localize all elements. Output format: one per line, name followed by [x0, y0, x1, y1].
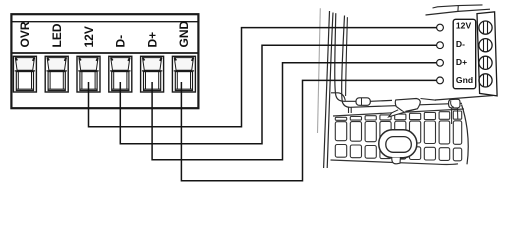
screw S3: [479, 56, 492, 69]
wire D+: [152, 63, 437, 160]
wire GND: [181, 80, 436, 180]
reader device rear housing: [318, 5, 494, 168]
svg-text:OVR: OVR: [18, 21, 32, 47]
bottom shoulder of terminal area: [435, 96, 493, 101]
terminal J1-3 (12V): [77, 56, 100, 92]
buzzer port ring: [379, 130, 417, 164]
svg-text:GND: GND: [177, 21, 191, 48]
mounting foot tab: [356, 98, 370, 106]
vent grid sliver row: [335, 117, 346, 120]
svg-text:D-: D-: [456, 39, 465, 49]
housing left edge line B: [327, 13, 333, 169]
wire 12V: [89, 28, 437, 127]
housing inner corner detail: [331, 93, 345, 101]
terminal J1-1 (OVR): [13, 56, 36, 92]
vent grid top rim: [333, 109, 464, 116]
node GND: [437, 77, 444, 84]
housing left edge line D with shoulder bottom: [342, 16, 462, 108]
wire D-: [120, 45, 436, 144]
housing left edge line E: [346, 17, 348, 96]
vent grid of housing: [331, 109, 465, 165]
screw channel: [477, 12, 497, 96]
shoulder right slant: [421, 99, 437, 101]
terminal J1-6 (GND): [172, 56, 195, 92]
svg-text:D+: D+: [145, 32, 159, 48]
node D+: [437, 59, 444, 66]
reader terminal label box: [453, 19, 476, 88]
vent grid connector stubs: [348, 108, 350, 114]
screw S4: [479, 74, 492, 87]
screw S1: [479, 21, 492, 34]
svg-text:12V: 12V: [456, 21, 472, 31]
housing left edge (faint): [318, 8, 321, 133]
node D-: [437, 42, 444, 49]
svg-text:12V: 12V: [82, 26, 96, 47]
housing left edge line A: [324, 11, 330, 168]
terminal J1-4 (D-): [109, 56, 132, 92]
vent grid row 2 cells: [335, 145, 346, 158]
terminal J1-2 (LED): [45, 56, 68, 92]
terminal block J1 outline: [11, 14, 198, 108]
svg-text:D-: D-: [114, 35, 128, 48]
housing right outer edge: [462, 105, 469, 165]
housing left edge line C with shoulder top: [335, 13, 392, 101]
vent grid bottom edge: [331, 160, 459, 165]
terminal J1-5 (D+): [141, 56, 164, 92]
right step tab: [449, 99, 460, 124]
node 12V: [437, 24, 444, 31]
svg-text:D+: D+: [456, 57, 467, 67]
cable clamp flap: [395, 99, 420, 113]
svg-text:Gnd: Gnd: [456, 75, 473, 85]
vent grid row 1 cells: [335, 122, 346, 141]
housing top edge wedge: [426, 9, 491, 15]
screw S2: [479, 39, 492, 52]
svg-text:LED: LED: [50, 23, 64, 47]
